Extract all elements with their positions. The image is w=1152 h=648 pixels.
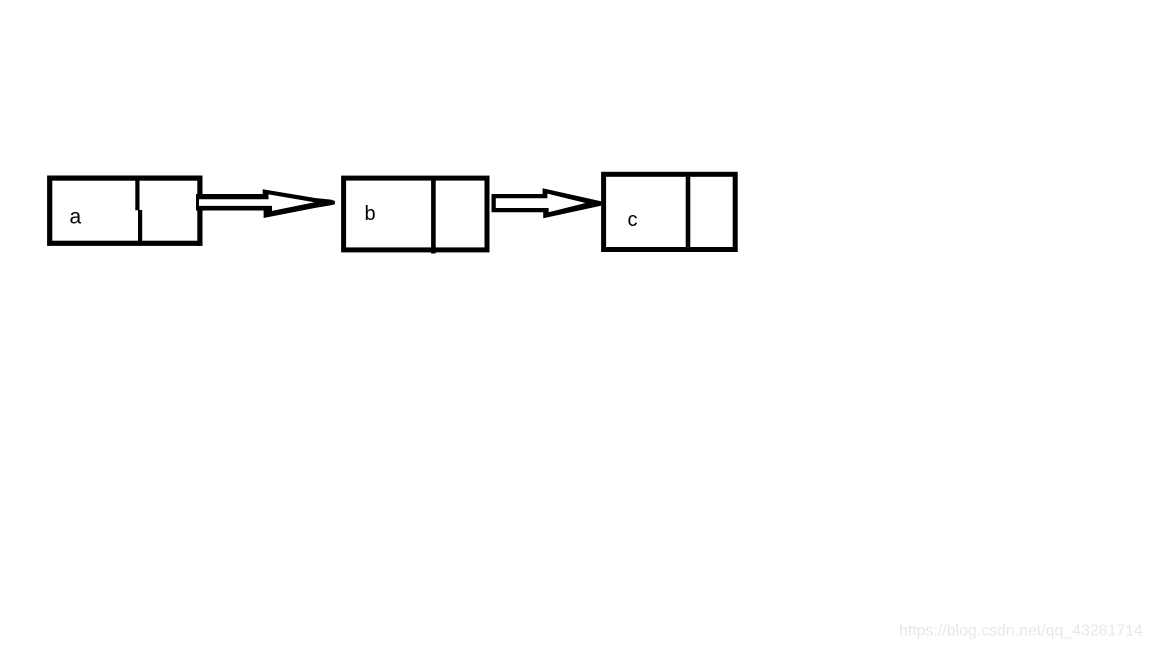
svg-text:c: c: [628, 209, 638, 231]
svg-text:a: a: [70, 206, 82, 229]
svg-text:https://blog.csdn.net/qq_43281: https://blog.csdn.net/qq_43281714: [899, 623, 1143, 640]
svg-text:b: b: [365, 203, 376, 225]
